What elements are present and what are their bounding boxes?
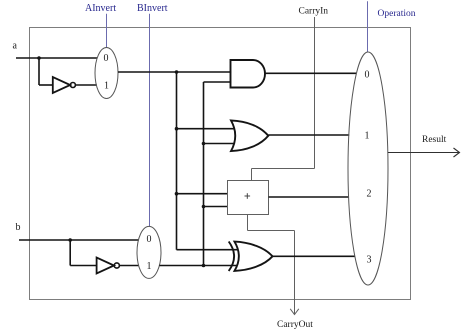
wire inverter-b to mux xyxy=(119,265,138,267)
wire a-bus vertical xyxy=(176,72,178,250)
svg-text:0: 0 xyxy=(104,53,109,64)
NOT gate b-invert xyxy=(97,258,120,274)
junction b xyxy=(68,238,72,242)
wire a input xyxy=(16,57,98,59)
wire b-bus to adder xyxy=(204,206,229,208)
svg-text:3: 3 xyxy=(367,254,372,265)
wire OR output to mux pin1 xyxy=(268,134,349,136)
wire mux B output to XOR xyxy=(159,265,237,267)
junction b-bus to OR xyxy=(202,142,206,146)
svg-text:CarryIn: CarryIn xyxy=(299,7,329,17)
wire XOR output to mux pin3 xyxy=(273,255,356,257)
wire inverter-a to mux xyxy=(75,84,96,86)
junction a-bus to adder xyxy=(175,192,179,196)
wire a-bus to OR input xyxy=(177,128,236,130)
svg-text:1: 1 xyxy=(365,130,370,141)
svg-text:b: b xyxy=(16,222,21,233)
Operation control line xyxy=(367,1,369,52)
junction b-bus bottom xyxy=(202,264,206,268)
CarryOut wire (adder bottom, jog right, drop with arrow) xyxy=(248,215,299,315)
wire a-bus to XOR input xyxy=(177,249,238,251)
ALU enclosure box xyxy=(30,28,411,300)
svg-text:CarryOut: CarryOut xyxy=(277,320,313,330)
wire b-bus to OR input xyxy=(204,143,236,145)
OR gate xyxy=(231,120,268,151)
mux A (2:1) body xyxy=(95,48,118,99)
svg-text:2: 2 xyxy=(367,188,372,199)
junction a-bus to OR xyxy=(175,127,179,131)
XOR gate xyxy=(229,242,273,272)
adder plus sign xyxy=(245,193,251,199)
wire b input xyxy=(19,239,139,241)
svg-text:a: a xyxy=(13,41,18,52)
wire a-bus to adder xyxy=(177,193,229,195)
mux B (2:1) body xyxy=(137,226,161,278)
wire adder output to mux pin2 xyxy=(269,196,349,198)
BInvert control line xyxy=(149,14,151,227)
wire b-bus vertical xyxy=(203,82,205,266)
CarryIn wire (vertical drop, jog left, into adder top) xyxy=(252,17,315,181)
svg-text:0: 0 xyxy=(365,69,370,80)
wire mux A output to AND gate xyxy=(118,71,231,73)
svg-text:BInvert: BInvert xyxy=(137,3,168,14)
result mux (4:1) body xyxy=(348,52,388,285)
Result wire with arrow xyxy=(388,148,460,157)
adder box xyxy=(228,181,269,215)
svg-text:Operation: Operation xyxy=(378,9,416,19)
wire b to inverter xyxy=(70,240,96,266)
junction a-bus top xyxy=(175,70,179,74)
wire a to inverter xyxy=(39,58,53,85)
wire b-bus to AND gate xyxy=(204,81,232,83)
wire AND output to mux pin0 xyxy=(265,72,357,74)
svg-text:AInvert: AInvert xyxy=(85,3,116,14)
NOT gate a-invert xyxy=(53,77,76,93)
AInvert control line xyxy=(106,14,108,48)
junction b-bus to adder xyxy=(202,205,206,209)
svg-text:Result: Result xyxy=(422,135,447,145)
AND gate xyxy=(231,60,266,88)
svg-text:0: 0 xyxy=(147,234,152,245)
svg-text:1: 1 xyxy=(147,261,152,272)
svg-text:1: 1 xyxy=(104,80,109,91)
junction a xyxy=(37,56,41,60)
